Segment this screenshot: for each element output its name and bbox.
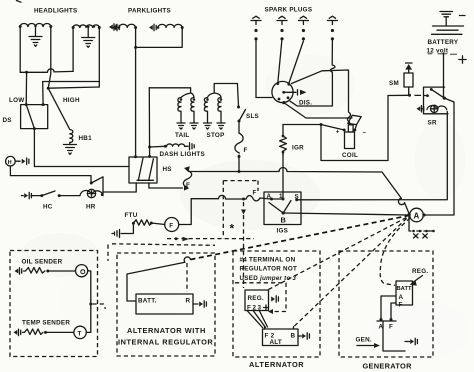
wire DS high feed (43, 82, 100, 105)
headlight right internal ground (82, 28, 95, 47)
svg-text:ALT: ALT (270, 339, 283, 346)
dimmer switch DS box (21, 105, 48, 129)
headlight left lamp (19, 24, 53, 28)
wires regulator to alternator (248, 311, 268, 328)
dashed hook from senders (93, 304, 106, 309)
high beam indicator HB1 (48, 88, 76, 154)
wire stop feed (208, 84, 238, 98)
wire gauge to feed (179, 199, 192, 225)
svg-text:HR: HR (86, 204, 96, 211)
ground at HC (22, 192, 32, 198)
generator terminals bar (377, 320, 396, 322)
svg-text:HIGH: HIGH (63, 97, 80, 104)
svg-text:IGS: IGS (277, 228, 289, 235)
node fuse junction (242, 198, 245, 201)
svg-text:+: + (336, 129, 340, 136)
distributor points arrow (284, 90, 307, 95)
spark plug 2 (277, 16, 287, 40)
stop lamp 1 (204, 98, 212, 130)
parklight left lamp (118, 24, 137, 29)
wire DS common to HS (34, 129, 129, 167)
wire plug2 to distributor (278, 39, 282, 83)
resistor SM (404, 73, 413, 87)
wire fuse to bus (238, 155, 241, 172)
dotted lead below ammeter (409, 215, 435, 232)
svg-text:TAIL: TAIL (175, 132, 190, 139)
wire accessory feed (191, 195, 246, 199)
svg-text:PARKLIGHTS: PARKLIGHTS (128, 8, 171, 15)
svg-text:F: F (253, 190, 257, 197)
svg-text:–: – (363, 129, 367, 136)
GEN label and arrow (356, 337, 381, 349)
parklight left ground (112, 24, 119, 30)
svg-text:HEADLIGHTS: HEADLIGHTS (34, 8, 77, 15)
svg-text:GEN.: GEN. (356, 337, 372, 344)
SR contact arm (430, 88, 446, 100)
node LOW tap (25, 71, 28, 74)
IGS switch arms (269, 201, 291, 214)
svg-text:SPARK PLUGS: SPARK PLUGS (265, 7, 313, 14)
svg-text:F23: F23 (247, 305, 263, 312)
wire distributor HT to coil (292, 70, 351, 125)
svg-text:USED: USED (240, 275, 259, 282)
dashed senders box (10, 251, 98, 357)
arrow to jumper terminal (268, 309, 273, 314)
fuse F at bus end (183, 166, 191, 187)
svg-text:IGR: IGR (292, 145, 304, 152)
svg-text:B: B (281, 216, 287, 225)
generator ground (405, 338, 417, 344)
svg-text:ALTERNATOR: ALTERNATOR (249, 360, 304, 369)
svg-text:OIL SENDER: OIL SENDER (22, 259, 63, 266)
svg-text:SR: SR (428, 120, 437, 127)
wire plug4 to distributor with hop (290, 39, 335, 106)
svg-text:REGULATOR NOT: REGULATOR NOT (240, 266, 298, 273)
spark plug 4 (327, 16, 337, 40)
fuse F below SLS (235, 133, 243, 153)
hop over S wire (398, 198, 404, 204)
dashed R lead (186, 263, 188, 292)
temp sender ground (14, 329, 21, 335)
HS switch wipers (137, 158, 154, 181)
FTU ground (112, 223, 133, 237)
IGS terminal link A-1 (272, 198, 284, 200)
oil gauge O (76, 265, 88, 277)
svg-text:TEMP SENDER: TEMP SENDER (22, 320, 70, 327)
wire IGR to IGS terminal 1 (282, 152, 284, 199)
ammeter A (407, 208, 425, 222)
ignition switch IGS box (264, 192, 301, 225)
wire HC row (31, 195, 80, 197)
svg-text:*: * (230, 222, 235, 236)
fuse F to IGS A (246, 196, 272, 201)
wire DS low tap (25, 72, 27, 104)
battery plates (432, 26, 464, 34)
x marks below ammeter (414, 234, 428, 238)
svg-text:F: F (186, 182, 190, 189)
headlight left internal ground (29, 27, 42, 46)
wire SM to relay (408, 87, 429, 97)
wire parklight right loop (136, 28, 183, 48)
wire SLS to fuse (238, 121, 240, 133)
dash lights lamp (150, 143, 195, 150)
wire right lamp left vertical (72, 28, 74, 72)
starter relay SR frame (424, 87, 449, 114)
svg-text:DASH LIGHTS: DASH LIGHTS (160, 151, 205, 158)
SR motor (427, 105, 447, 112)
svg-text:H: H (8, 160, 12, 166)
node bus SLS junction (238, 170, 241, 173)
wire left lamp left vertical (19, 27, 21, 73)
svg-text:A: A (399, 294, 404, 301)
svg-text:SM: SM (389, 80, 399, 87)
dashed instrument box (108, 181, 258, 261)
headlight switch HS box (129, 157, 157, 183)
dashed lead alternator B to ammeter (295, 218, 408, 327)
svg-text:ALTERNATOR WITH: ALTERNATOR WITH (127, 326, 206, 335)
resistor IGR (280, 125, 287, 156)
svg-text:LOW: LOW (9, 97, 24, 104)
wire HIGH bus (48, 87, 99, 88)
svg-text:DIS.: DIS. (299, 100, 312, 107)
wire left lamp high vertical (48, 27, 51, 89)
svg-text:DS: DS (3, 117, 12, 124)
note underline dashes (235, 283, 286, 312)
headlight right lamp (72, 25, 101, 29)
svg-text:jumper to 3: jumper to 3 (259, 275, 296, 282)
battery ground (440, 12, 453, 26)
wire SR contact out (444, 98, 454, 102)
dashed lead IGS fuse to alternator regulator (243, 202, 245, 288)
chassis ground right of right headlight (109, 24, 116, 30)
wire tail feed vertical from HS (148, 88, 150, 156)
oil sender ground (15, 268, 22, 274)
node horn relay arm (90, 182, 93, 185)
fuel gauge F (165, 218, 179, 232)
parklight right ground (149, 24, 156, 30)
arrow on dashed lead (241, 210, 246, 215)
alternator BATT terminal box (136, 294, 193, 314)
wire LOW bus with hop (20, 69, 73, 73)
svg-text:COIL: COIL (342, 152, 358, 159)
generator regulator box (396, 281, 413, 305)
spark plug 3 (298, 16, 308, 40)
wire right lamp right vertical (98, 28, 100, 88)
svg-text:HS: HS (163, 166, 172, 173)
svg-text:HB1: HB1 (79, 135, 93, 142)
wire tail feed (149, 88, 194, 98)
dashed generator box (339, 251, 433, 357)
svg-text:SLS: SLS (246, 113, 259, 120)
stop light switch SLS (237, 106, 246, 123)
wire stop feed to SLS (237, 84, 238, 107)
wire ammeter to starter relay (424, 102, 454, 215)
wire battery lead with curl (127, 257, 191, 301)
wire oil sender to gauge (48, 270, 76, 272)
REG arrow (410, 276, 423, 286)
temp sender resistor (23, 329, 48, 334)
dashed lead alternator-internal to ammeter (191, 216, 408, 260)
battery plus sign (459, 56, 466, 63)
wire ballast loop to SR (321, 95, 410, 160)
DS switch arm (26, 105, 34, 129)
dashed alternator internal regulator box (117, 253, 215, 356)
tail lamp 2 (190, 98, 198, 130)
node parklight junction (134, 46, 137, 49)
svg-text:#4 TERMINAL ON: #4 TERMINAL ON (240, 257, 296, 264)
svg-text:BATTERY: BATTERY (428, 39, 459, 46)
svg-text:F: F (244, 147, 248, 154)
svg-text:STOP: STOP (207, 132, 225, 139)
SM feed arrow (405, 63, 412, 73)
alternator frame ALT (263, 327, 299, 346)
wire battery positive (443, 53, 445, 98)
wire gen reg A to armature (380, 296, 397, 321)
wire gauges junction vertical (86, 271, 92, 333)
svg-text:BATT: BATT (397, 286, 412, 292)
stop lamp 2 (217, 98, 225, 130)
battery minus sign (460, 15, 466, 17)
wire coil plus feed (283, 125, 344, 131)
svg-text:HC: HC (43, 204, 53, 211)
wire HS bottom-right to fuse arrow (149, 183, 183, 188)
parklight right lamp (157, 24, 184, 29)
wire plug3 to distributor (289, 41, 304, 84)
dashed alternator box (233, 251, 320, 357)
wire HS bottom-left to horn relay (103, 183, 136, 192)
svg-text:B: B (291, 333, 296, 340)
svg-text:R: R (186, 298, 191, 305)
svg-text:GENERATOR: GENERATOR (363, 362, 413, 371)
wire temp sender to gauge (46, 331, 74, 333)
wire FTU to gauge (151, 223, 164, 225)
SR ground (417, 106, 424, 112)
IGS terminals (270, 198, 298, 215)
horn relay HR coil (80, 189, 103, 197)
node dashlight tap (148, 146, 151, 149)
regulator REG box (245, 290, 269, 311)
spark plug 1 (251, 16, 261, 40)
wire plug1 to distributor (256, 39, 272, 98)
wire IGS B to ammeter (283, 213, 409, 215)
generator frame (383, 321, 405, 351)
wire IGS S to starter relay (297, 112, 448, 200)
distributor body (272, 81, 293, 104)
horn ground (15, 158, 29, 164)
svg-text:BATT.: BATT. (138, 298, 157, 305)
svg-text:REG.: REG. (248, 295, 264, 302)
svg-text:T: T (78, 330, 82, 337)
node coil feed junction (320, 123, 323, 126)
wire gen reg F to field (390, 303, 397, 321)
horn contact HC (40, 191, 60, 197)
ignition coil (343, 125, 357, 149)
wire horn to relay (10, 166, 91, 183)
alternator internal ground (193, 301, 206, 307)
svg-text:F: F (169, 222, 173, 229)
horn H (6, 156, 16, 166)
svg-text:FTU: FTU (125, 212, 138, 219)
svg-text:F: F (399, 302, 403, 309)
dashed lead ammeter to generator regulator (380, 218, 410, 285)
regulator ground (271, 296, 278, 302)
dashed lead alt-REG to ammeter (269, 217, 408, 290)
horn relay HR arm (91, 177, 103, 196)
wire parklight main vertical (135, 28, 137, 157)
wire distributor to coil minus (284, 103, 352, 118)
svg-text:INTERNAL REGULATOR: INTERNAL REGULATOR (118, 338, 213, 347)
node HIGH junction (47, 87, 50, 90)
temp gauge T (74, 326, 86, 338)
fuel tank unit FTU resistor (132, 220, 153, 225)
jumper plus mark (264, 305, 269, 310)
svg-text:A: A (414, 211, 420, 220)
svg-text:REG.: REG. (412, 268, 428, 275)
oil sender resistor (24, 268, 50, 274)
tail lamp 1 (177, 98, 185, 130)
svg-text:F: F (389, 324, 393, 331)
alternator ground (298, 333, 309, 339)
arrow into fuse (184, 186, 189, 191)
wire main bus with hop over IGR (190, 168, 409, 214)
